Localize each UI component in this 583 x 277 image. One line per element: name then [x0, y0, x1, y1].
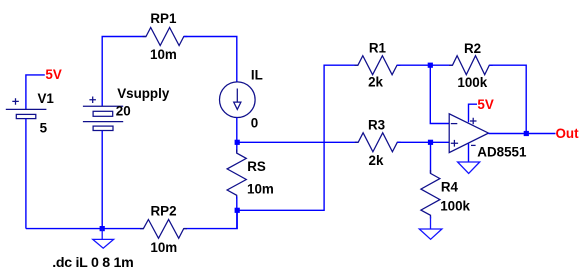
svg-text:R4: R4	[441, 179, 459, 194]
svg-text:IL: IL	[251, 68, 263, 83]
op-amp U1 AD8551	[449, 114, 488, 153]
svg-text:AD8551: AD8551	[477, 145, 527, 160]
node junction RS bottom	[235, 208, 240, 213]
wire junction down to R4	[430, 142, 432, 173]
wire 5V leader to V1 plus	[26, 75, 45, 110]
wire IL bottom to RS top	[236, 118, 238, 153]
wire feedback to minus input	[430, 65, 449, 123]
wire op-amp V+ pin to 5V	[469, 104, 478, 122]
current source IL	[220, 82, 256, 118]
node junction J1 (IL/RS/R3)	[235, 140, 240, 145]
wire R1 right to junction	[397, 64, 453, 66]
svg-text:R1: R1	[369, 40, 387, 55]
svg-text:V1: V1	[38, 91, 55, 106]
svg-text:10m: 10m	[247, 181, 274, 196]
ground (op-amp)	[458, 162, 480, 173]
svg-text:R3: R3	[368, 118, 385, 133]
svg-text:2k: 2k	[369, 153, 384, 168]
svg-text:RP1: RP1	[150, 11, 177, 26]
svg-text:5V: 5V	[477, 97, 493, 112]
resistor R1	[355, 56, 401, 75]
svg-text:Vsupply: Vsupply	[117, 86, 170, 101]
battery V1	[6, 98, 47, 118]
resistor RP2	[140, 220, 187, 239]
wire R2 right riser to output	[489, 65, 526, 133]
wire J1 to R3	[237, 141, 358, 143]
wire op-amp V- pin to ground	[468, 144, 470, 163]
wire bottom rail left	[26, 228, 144, 230]
svg-text:RP2: RP2	[151, 204, 177, 219]
wire RP1 right to IL top	[184, 37, 237, 83]
svg-text:10m: 10m	[150, 47, 177, 62]
node junction bottom ground	[100, 226, 105, 231]
wire R3 right to plus input	[397, 141, 449, 143]
wire Vsupply bottom	[101, 131, 103, 229]
svg-text:100k: 100k	[440, 198, 470, 213]
ground (main)	[93, 229, 114, 249]
svg-text:20: 20	[116, 104, 131, 119]
resistor R3	[355, 133, 401, 152]
svg-text:5: 5	[40, 120, 48, 135]
wire RS bottom to R1 riser	[237, 65, 358, 210]
svg-text:2k: 2k	[368, 75, 383, 90]
svg-text:.dc iL 0 8 1m: .dc iL 0 8 1m	[52, 255, 134, 271]
svg-text:10m: 10m	[150, 240, 177, 255]
wire RS bottom	[236, 197, 238, 229]
resistor RS	[227, 150, 246, 199]
wire V1 bottom	[25, 119, 27, 229]
ground (R4)	[419, 217, 442, 240]
resistor R2	[449, 56, 493, 75]
svg-text:5V: 5V	[45, 67, 61, 82]
wire bottom rail to RS	[184, 210, 238, 228]
svg-text:RS: RS	[247, 159, 266, 174]
resistor RP1	[143, 28, 188, 46]
svg-text:0: 0	[251, 115, 258, 130]
wire op-amp output to Out	[489, 133, 556, 135]
node junction output	[524, 131, 529, 136]
wire Vsupply top riser	[102, 37, 146, 107]
resistor R4	[421, 170, 440, 219]
svg-text:Out: Out	[556, 126, 580, 141]
node junction R3/R4/plus	[428, 140, 433, 145]
svg-text:R2: R2	[464, 41, 481, 56]
node junction R1/R2	[428, 63, 433, 68]
battery Vsupply	[83, 97, 123, 131]
svg-text:100k: 100k	[457, 75, 487, 90]
